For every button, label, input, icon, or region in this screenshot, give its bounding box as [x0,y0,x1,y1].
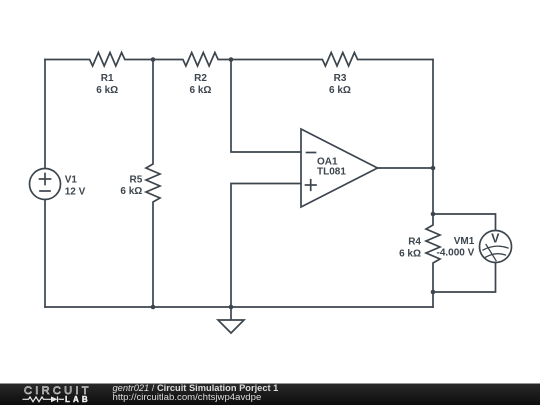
svg-text:R2: R2 [194,73,207,84]
svg-text:R4: R4 [408,236,421,247]
svg-text:6 kΩ: 6 kΩ [120,186,142,197]
svg-text:R1: R1 [101,73,114,84]
svg-text:6 kΩ: 6 kΩ [190,85,212,96]
svg-text:6 kΩ: 6 kΩ [329,85,351,96]
svg-text:VM1: VM1 [454,236,475,247]
svg-text:TL081: TL081 [317,167,346,178]
svg-text:6 kΩ: 6 kΩ [96,85,118,96]
svg-text:R3: R3 [334,73,347,84]
svg-text:V1: V1 [65,175,78,186]
svg-text:V: V [491,232,500,246]
svg-text:6 kΩ: 6 kΩ [399,248,421,259]
svg-text:-4.000 V: -4.000 V [436,248,474,259]
svg-text:12 V: 12 V [65,186,86,197]
svg-text:http://circuitlab.com/chtsjwp4: http://circuitlab.com/chtsjwp4avdpe [113,392,262,403]
svg-text:R5: R5 [130,175,143,186]
svg-text:LAB: LAB [65,395,91,404]
